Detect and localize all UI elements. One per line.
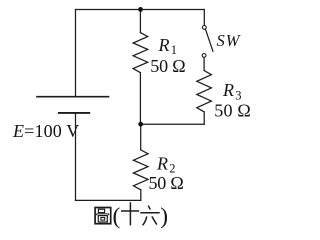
- wire switch to R3: [203, 57, 205, 70]
- wire R2 bottom stub: [140, 190, 142, 201]
- node junction dot top: [138, 7, 143, 12]
- svg-text:R: R: [158, 35, 170, 55]
- battery E long plate: [37, 96, 109, 98]
- switch SW blade: [206, 29, 213, 51]
- resistor R2 zigzag: [133, 150, 148, 190]
- caption glyph ten: [121, 202, 139, 225]
- wire middle branch top stub: [139, 10, 141, 33]
- svg-text:E=100 V: E=100 V: [12, 121, 79, 141]
- svg-text:(: (: [113, 204, 121, 230]
- svg-text:SW: SW: [217, 31, 241, 50]
- battery E short plate: [59, 112, 89, 114]
- svg-text:): ): [160, 204, 168, 230]
- switch top contact circle: [202, 26, 206, 30]
- wire left vertical upper (battery + lead): [75, 10, 77, 97]
- wire middle node to R2: [140, 124, 142, 150]
- caption glyph six: [140, 206, 159, 226]
- svg-text:50 Ω: 50 Ω: [150, 56, 185, 76]
- resistor R1 zigzag: [133, 33, 148, 73]
- resistor R3 zigzag: [197, 71, 212, 112]
- node junction dot middle: [138, 122, 143, 127]
- svg-text:1: 1: [171, 43, 177, 57]
- svg-text:R: R: [222, 80, 234, 100]
- wire left vertical lower (battery - lead): [75, 113, 77, 200]
- svg-text:50 Ω: 50 Ω: [149, 173, 184, 193]
- wire bottom horizontal: [76, 199, 141, 201]
- wire top horizontal: [76, 9, 205, 11]
- wire right vertical to switch: [203, 10, 205, 26]
- svg-text:R: R: [156, 153, 168, 173]
- caption glyph TU (figure): [95, 208, 111, 224]
- wire middle horizontal (node to R3): [141, 123, 205, 125]
- svg-text:50 Ω: 50 Ω: [214, 101, 251, 121]
- switch bottom contact circle: [202, 54, 206, 58]
- wire R1 to middle node: [139, 73, 141, 125]
- wire R3 bottom stub: [203, 112, 205, 124]
